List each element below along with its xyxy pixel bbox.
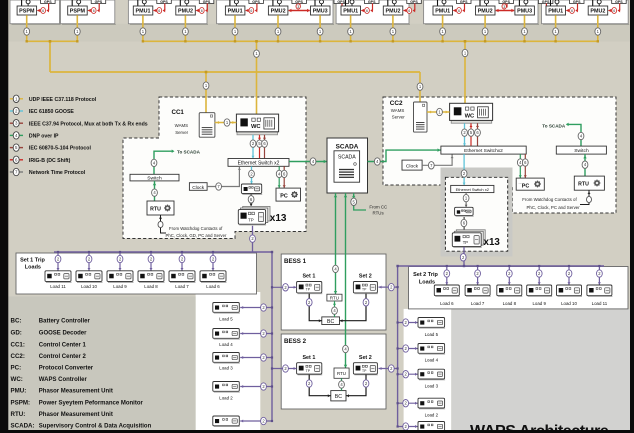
svg-text:PMU1: PMU1	[548, 9, 563, 15]
node 1 on drop x=320.1	[317, 28, 323, 35]
svg-text:From Watchdog Contacts of: From Watchdog Contacts of	[522, 197, 577, 202]
load controller column-left Load 5	[213, 303, 240, 314]
wire purple to BESS2 Set1	[272, 368, 297, 370]
PMU1 of G4	[225, 0, 263, 15]
RTU box BESS2	[334, 368, 349, 378]
svg-text:PSPM:: PSPM:	[11, 399, 31, 406]
node stub right Load 3	[403, 371, 409, 378]
svg-text:To SCADA: To SCADA	[177, 150, 201, 155]
WC CC1 screen icon	[264, 118, 275, 129]
PMU group box G4	[217, 0, 333, 24]
wire cyan switch1 to GD	[251, 166, 253, 184]
Clock box CC1	[189, 183, 207, 191]
svg-text:Set 2 Trip: Set 2 Trip	[413, 272, 438, 278]
svg-text:IEC 61850 GOOSE: IEC 61850 GOOSE	[29, 109, 75, 115]
node on x13 CC2 downlink	[460, 254, 466, 261]
svg-text:IEC 60870-5-104 Protocol: IEC 60870-5-104 Protocol	[29, 146, 92, 152]
node stub Load 5	[261, 304, 267, 311]
svg-text:Control Center 2: Control Center 2	[39, 354, 87, 360]
wire Set2 to BC BESS2	[346, 375, 366, 396]
svg-text:PMU1: PMU1	[228, 9, 243, 15]
wire purple stub to left column Load 3	[240, 357, 272, 359]
node below Set2 BESS1	[363, 299, 369, 306]
svg-text:CC2:: CC2:	[11, 353, 25, 360]
Set 2 Trip Loads panel	[409, 267, 629, 309]
frame bottom	[0, 430, 634, 433]
node above Load 9	[117, 255, 123, 262]
wire cyan WC2 to switch2	[464, 123, 466, 146]
node 4 SCADA-CC2	[374, 158, 380, 165]
node 6 below GD CC1	[248, 196, 254, 203]
PMU group box G5	[336, 0, 409, 24]
node into BESS2 Set2	[388, 365, 394, 372]
GOOSE decoder GD CC1	[241, 184, 262, 194]
svg-text:Load 6: Load 6	[206, 284, 220, 289]
svg-text:WC:: WC:	[11, 376, 23, 383]
wire purple drop Load 11	[57, 252, 59, 271]
wire Set2 to BC BESS1	[340, 294, 367, 321]
wire C37.94 link G4	[289, 10, 310, 12]
node above x13 CC2	[461, 219, 467, 226]
node on CC1 WC feed	[254, 50, 260, 57]
legend item 6	[10, 159, 13, 161]
node on CC1 WAMS feed	[203, 82, 209, 89]
wire Set1 to BC BESS2	[309, 375, 331, 396]
svg-text:BC: BC	[335, 394, 342, 400]
svg-text:Ethernet Switchx2: Ethernet Switchx2	[464, 148, 503, 154]
wire purple stub to right column Load 5	[398, 322, 418, 324]
wire yellow drop x=142.9	[142, 15, 144, 41]
svg-text:BESS 1: BESS 1	[284, 258, 307, 265]
load controller column-right Load 4	[418, 344, 445, 355]
svg-text:Load 4: Load 4	[425, 358, 439, 363]
load controller column-right Load 2	[418, 398, 445, 409]
PMU1 of G6	[433, 0, 471, 15]
node above Load 7	[179, 255, 185, 262]
load controller Load 11	[45, 271, 72, 283]
wire red WC2 to switch2	[470, 123, 472, 146]
svg-text:RTU: RTU	[337, 371, 346, 376]
node 1 on drop x=442.6	[440, 28, 446, 35]
node 4 above switch CC1	[151, 159, 157, 166]
wire clock CC1 to switch	[207, 166, 239, 186]
wire yellow PSPM bus downlink	[49, 41, 51, 72]
PMU1 of G3	[133, 0, 171, 15]
node 1 on drop x=278.0	[275, 28, 281, 35]
svg-text:Load 2: Load 2	[425, 412, 439, 417]
svg-text:PMU2: PMU2	[386, 9, 401, 15]
svg-text:SCADA: SCADA	[336, 144, 359, 151]
svg-text:GPS: GPS	[573, 0, 581, 4]
wire GD1 to x13 stack	[250, 194, 252, 206]
svg-text:WC: WC	[251, 124, 261, 130]
node 1 on drop x=485.1	[482, 28, 488, 35]
WC CC1 black square	[240, 118, 247, 126]
svg-text:Load 3: Load 3	[219, 366, 233, 371]
svg-text:Load 9: Load 9	[113, 284, 127, 289]
load controller column-left Load 1	[213, 416, 240, 427]
wire yellow WAMS-WC CC1	[215, 122, 237, 124]
svg-text:Ethernet Switch x2: Ethernet Switch x2	[456, 187, 490, 192]
svg-text:Supervisory Control & Data Acq: Supervisory Control & Data Acquisition	[39, 423, 152, 429]
protocol converter PC CC2	[516, 178, 544, 190]
load controller column-left Load 3	[213, 353, 240, 364]
wire yellow drop x=278.0	[277, 15, 279, 41]
wire purple Set1 vertical bus	[271, 252, 273, 421]
svg-text:Load 11: Load 11	[592, 301, 608, 306]
node below Set1 BESS1	[306, 299, 312, 306]
wire yellow drop x=185.4	[184, 15, 186, 41]
Set 1 controller BESS2	[297, 363, 323, 375]
svg-text:BESS 2: BESS 2	[284, 338, 307, 345]
svg-text:Load 7: Load 7	[471, 301, 485, 306]
svg-text:Network Time Protocol: Network Time Protocol	[29, 170, 86, 176]
node watchdog CC1	[158, 221, 163, 227]
wire green SCADA to CC2 switch	[368, 150, 441, 161]
node WAMS-WC CC2	[437, 108, 443, 115]
svg-text:Power Syeytem Peformance Monit: Power Syeytem Peformance Monitor	[39, 400, 144, 406]
PSPM unit 2	[68, 0, 106, 15]
svg-text:RTU: RTU	[578, 182, 589, 188]
wire yellow PMU main bus	[143, 40, 598, 42]
wire yellow PSPM bus	[27, 40, 78, 42]
PMU2 of G7	[588, 0, 626, 15]
svg-text:Load 6: Load 6	[440, 301, 454, 306]
node into BESS1 Set2	[388, 283, 394, 290]
battery controller BC BESS2	[331, 391, 346, 401]
svg-text:GPS: GPS	[368, 0, 376, 4]
svg-text:PC:: PC:	[11, 365, 22, 372]
wire purple drop Load 6	[212, 252, 214, 271]
node WAMS-WC CC1	[224, 119, 230, 126]
svg-text:TP: TP	[248, 217, 254, 222]
svg-text:PMU1: PMU1	[136, 9, 151, 15]
legend item 5	[10, 147, 13, 149]
node 2 on cyan CC2	[461, 170, 467, 177]
node above Load 11	[55, 255, 61, 262]
svg-text:RTU:: RTU:	[11, 411, 26, 418]
Set 2 controller BESS1	[353, 282, 378, 294]
wire yellow drop x=485.1	[484, 15, 486, 41]
svg-text:TP: TP	[362, 288, 367, 292]
WC CC1 body	[236, 114, 278, 132]
node into BESS1 Set1	[283, 284, 289, 291]
load controller column-right Load 3	[418, 369, 445, 380]
legend item 3	[10, 122, 13, 124]
svg-text:PMU2: PMU2	[590, 9, 605, 15]
node on x13 CC1 downlink	[250, 235, 256, 242]
wire green SCADA to BESS2 RTU	[345, 193, 347, 368]
BESS 1 box	[281, 254, 386, 330]
svg-text:6: 6	[458, 9, 460, 13]
svg-text:WAMS: WAMS	[391, 108, 405, 113]
node 4 BC-RTU BESS1	[332, 307, 338, 314]
CC2 substation dashed box	[445, 177, 507, 251]
PMU group box G2	[61, 0, 115, 24]
svg-text:SCADA: SCADA	[338, 155, 356, 161]
Set 2 controller BESS2	[353, 363, 378, 375]
node above Load 10 set2	[566, 270, 572, 277]
svg-text:PMU2: PMU2	[478, 9, 493, 15]
node above Load 6 set2	[444, 270, 450, 277]
node 1 on drop x=392.9	[390, 28, 396, 35]
svg-text:GPS: GPS	[95, 0, 103, 4]
svg-text:Phasor Measurement Unit: Phasor Measurement Unit	[39, 412, 113, 418]
svg-text:Set 1: Set 1	[302, 274, 315, 280]
svg-text:Load 4: Load 4	[219, 342, 233, 347]
PMU group box G1	[10, 0, 60, 24]
node above Load 9 set2	[536, 270, 542, 277]
svg-text:TP: TP	[362, 369, 367, 373]
node 4 below right switch CC2	[582, 161, 588, 168]
svg-text:GOOSE Decoder: GOOSE Decoder	[39, 331, 87, 337]
wire yellow drop x=77.3	[76, 15, 78, 41]
wire purple Set2 vertical bus	[397, 266, 399, 427]
wire purple drop Load 6 set2	[446, 266, 448, 285]
svg-text:DNP over IP: DNP over IP	[29, 134, 59, 140]
svg-text:BC:: BC:	[11, 318, 22, 325]
wire purple drop Load 10	[88, 252, 90, 271]
wire green To SCADA CC2	[567, 124, 581, 146]
wire green switch2 to PC2	[519, 154, 521, 178]
svg-text:6: 6	[158, 9, 160, 13]
node 6 above PC CC2	[522, 159, 528, 166]
load controller column-right Load 5	[418, 318, 445, 329]
svg-text:Clock: Clock	[192, 185, 205, 191]
node stub Load 4	[261, 330, 267, 337]
PMU1 of G7	[546, 0, 584, 15]
wire GD2 to x13 stack	[463, 217, 465, 234]
load controller Load 10 set2	[557, 285, 583, 297]
RTU box BESS1	[327, 294, 342, 301]
node 4 above right switch CC2	[578, 132, 584, 139]
wire green switch1 to PC	[278, 166, 280, 188]
svg-text:Server: Server	[175, 130, 188, 135]
svg-text:PhC, Clock, PC and Server: PhC, Clock, PC and Server	[527, 205, 581, 210]
control center CC2 dashed region	[383, 97, 616, 213]
svg-text:PMU1: PMU1	[435, 9, 450, 15]
svg-text:IEEE C37.94 Protocol, Mux at b: IEEE C37.94 Protocol, Mux at both Tx & R…	[29, 121, 148, 127]
wire purple x13 CC1 to Set1 trip bus	[252, 226, 254, 252]
load controller column-left Load 2	[213, 382, 240, 393]
svg-text:TP: TP	[306, 288, 311, 292]
wire green BC to RTU BESS1	[334, 301, 336, 317]
wire watchdog CC1	[161, 215, 167, 233]
wire purple drop Load 7 set2	[477, 266, 479, 285]
svg-text:Load 5: Load 5	[219, 317, 233, 322]
svg-text:Load 5: Load 5	[425, 332, 439, 337]
node 4 BC-RTU BESS2	[339, 381, 345, 388]
wire purple to BESS1 Set1	[272, 286, 297, 288]
load controller column-left Load 4	[213, 329, 240, 340]
svg-text:BC: BC	[327, 319, 334, 325]
wire purple drop Load 9	[119, 252, 121, 271]
legend item 2	[10, 110, 13, 112]
node stub Load 1	[261, 417, 267, 424]
PMU2 of G4	[268, 0, 306, 15]
wire green From CC RTUs	[354, 206, 366, 211]
svg-text:TP: TP	[306, 369, 311, 373]
node below Set1 BESS2	[306, 380, 312, 387]
svg-text:Switch: Switch	[574, 148, 589, 154]
svg-text:From CC: From CC	[369, 205, 387, 210]
SCADA server box	[334, 151, 360, 182]
node above Load 11 set2	[597, 270, 603, 277]
svg-text:6: 6	[366, 9, 368, 13]
wire yellow feed to CC1 WAMS server	[205, 72, 207, 113]
PMU2 of G5	[383, 0, 421, 15]
svg-text:Phasor Measurement Unit: Phasor Measurement Unit	[39, 388, 113, 394]
node 6 below WC1	[262, 140, 268, 147]
svg-text:6: 6	[613, 9, 615, 13]
svg-text:Load 8: Load 8	[144, 284, 158, 289]
svg-text:Set 2: Set 2	[359, 274, 372, 280]
node stub Load 3	[261, 354, 267, 361]
node above Load 8	[148, 255, 154, 262]
BESS 2 box	[281, 334, 386, 409]
WC CC2 platform	[451, 120, 492, 123]
wire purple to BESS1 Set2	[379, 286, 398, 288]
bottom-right title panel	[451, 309, 630, 430]
svg-text:6: 6	[571, 9, 573, 13]
svg-text:Set 1: Set 1	[302, 355, 315, 361]
node 1 on drop x=142.9	[140, 28, 146, 35]
node above Load 6	[210, 255, 216, 262]
svg-text:Load 10: Load 10	[561, 301, 577, 306]
node 4 on BESS2 RTU feed	[343, 345, 349, 352]
svg-text:PMU2: PMU2	[271, 9, 286, 15]
wire yellow WAMS-WC CC2	[427, 111, 450, 113]
PMU group box G3	[128, 0, 207, 24]
legend item 1	[10, 98, 13, 100]
wire yellow drop x=555.6	[555, 15, 557, 41]
node 4 above PC CC1	[276, 170, 282, 177]
node stub right Load 2	[403, 400, 409, 407]
wire purple stub to right column Load 4	[398, 348, 418, 350]
node stub right Load 5	[403, 319, 409, 326]
wire purple stub to left column Load 2	[240, 386, 272, 388]
node 1 on drop x=77.3	[74, 28, 80, 35]
svg-text:WAMS: WAMS	[175, 123, 189, 128]
WC CC2 body	[450, 103, 493, 120]
svg-text:GPS: GPS	[203, 0, 211, 4]
wire purple stub to left column Load 4	[240, 333, 272, 335]
RTU box CC1	[147, 201, 174, 215]
svg-text:3: 3	[297, 5, 299, 9]
wire purple drop Load 10 set2	[568, 266, 570, 285]
svg-text:PC: PC	[280, 194, 288, 200]
node watchdog CC2	[587, 196, 592, 202]
svg-text:PhC, Clock, GD, PC and Server: PhC, Clock, GD, PC and Server	[166, 233, 227, 238]
wire cyan switch2 to inner ethernet switch	[463, 154, 465, 185]
left middle white column	[196, 292, 261, 430]
RTU box CC2	[574, 176, 604, 190]
svg-text:GPS: GPS	[337, 0, 345, 4]
WC CC2 black square	[454, 107, 462, 115]
wire yellow drop x=392.9	[392, 15, 394, 41]
load controller Load 8 set2	[497, 285, 523, 297]
svg-text:GPS: GPS	[542, 0, 550, 4]
wire purple stub to right column Load 1	[398, 426, 418, 428]
wire purple Set2 trip bus	[398, 265, 604, 267]
wire C37.94 link G6	[496, 10, 515, 12]
node above Load 8 set2	[506, 270, 512, 277]
wire purple stub to right column Load 2	[398, 402, 418, 404]
node above Load 10	[86, 255, 92, 262]
node 1 on drop x=235.0	[232, 28, 238, 35]
legend gray panel	[8, 296, 195, 430]
wire yellow PSPM horizontal trunk y=72	[50, 71, 420, 73]
node 7 clock CC1	[216, 183, 222, 190]
svg-text:Clock: Clock	[406, 163, 419, 169]
svg-text:IRIG-B (DC Shift): IRIG-B (DC Shift)	[29, 158, 71, 164]
svg-text:PMU3: PMU3	[517, 9, 532, 15]
load controller Load 7	[169, 271, 196, 283]
frame right	[630, 0, 634, 433]
wire darkred switch2 to PC2	[524, 154, 526, 178]
svg-text:6: 6	[408, 9, 410, 13]
node 6 below WC2	[475, 129, 481, 136]
WC CC2 screen icon	[478, 107, 489, 118]
svg-text:Switch: Switch	[147, 176, 162, 182]
node 3 on C37.94 link G6	[502, 4, 506, 9]
wire purple x13 CC2 to Set2 trip bus	[463, 247, 465, 266]
wire green To SCADA CC1	[154, 151, 174, 174]
node 1 on drop x=185.4	[183, 28, 189, 35]
svg-text:6: 6	[201, 9, 203, 13]
wire green SCADA to BESS1 RTU	[335, 193, 337, 294]
wire yellow drop x=442.6	[442, 15, 444, 41]
load controller Load 9	[107, 271, 134, 283]
wire red WC1 to switch	[259, 135, 261, 159]
node 2 below WC1	[250, 140, 256, 147]
svg-text:Load 11: Load 11	[50, 284, 66, 289]
svg-text:GPS: GPS	[295, 0, 303, 4]
wire watchdog CC2	[580, 190, 589, 204]
svg-text:RTUs: RTUs	[373, 211, 385, 216]
WAMS server icon CC2	[414, 102, 428, 132]
PMU3 of G4	[311, 0, 349, 15]
svg-text:Load 8: Load 8	[503, 301, 517, 306]
node stub right Load 1	[403, 423, 409, 430]
wire purple drop Load 9 set2	[538, 266, 540, 285]
wire darkred switch1 to PC	[283, 166, 285, 188]
Set 1 Trip Loads panel	[16, 253, 257, 294]
svg-text:6: 6	[250, 9, 252, 13]
svg-text:Protocol Converter: Protocol Converter	[39, 366, 94, 372]
PMU1 of G5	[341, 0, 379, 15]
svg-text:SCADA:: SCADA:	[11, 422, 35, 429]
load controller Load 9 set2	[527, 285, 553, 297]
PMU3 of G6	[515, 0, 553, 15]
wire yellow drop x=350.6	[350, 15, 352, 41]
svg-text:Loads: Loads	[25, 265, 41, 271]
WAMS server icon CC1	[199, 113, 215, 138]
Ethernet Switch x2 CC2	[441, 146, 526, 154]
wire purple drop Load 11 set2	[598, 266, 600, 285]
node 1 on drop x=26.7	[24, 28, 30, 35]
node below Set2 BESS2	[363, 380, 369, 387]
wire green BC to RTU BESS2	[341, 378, 343, 390]
svg-text:RTU: RTU	[330, 296, 339, 301]
Set 1 controller BESS1	[297, 282, 323, 294]
node into BESS2 Set1	[283, 365, 289, 372]
frame left	[0, 0, 8, 433]
svg-text:GPS: GPS	[615, 0, 623, 4]
svg-text:UDP IEEE C37.118 Protocol: UDP IEEE C37.118 Protocol	[29, 97, 97, 103]
x13 load-controller stack CC2	[456, 230, 485, 244]
Clock box CC2	[402, 160, 422, 170]
